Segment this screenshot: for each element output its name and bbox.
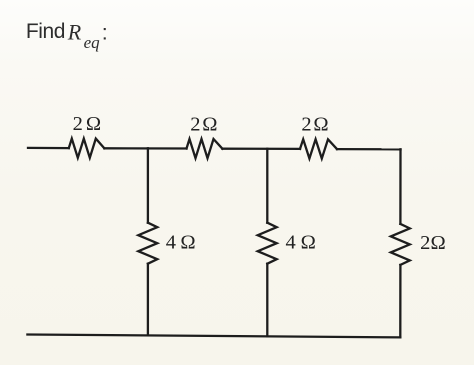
svg-text:Find: Find bbox=[26, 20, 65, 43]
resistor R2 2ohm (top middle) bbox=[187, 139, 223, 158]
svg-text:2: 2 bbox=[73, 113, 83, 135]
svg-text:Ω: Ω bbox=[431, 232, 446, 254]
svg-text:Ω: Ω bbox=[301, 231, 316, 253]
wire: node A vertical lower stub bbox=[147, 264, 149, 336]
wire: top right to corner bbox=[337, 148, 401, 150]
wire: node B vertical lower stub bbox=[266, 264, 268, 337]
resistor R4 4ohm (vertical left) bbox=[138, 223, 157, 264]
svg-text:4: 4 bbox=[286, 231, 296, 253]
svg-text:Ω: Ω bbox=[180, 231, 195, 253]
wire: top between R1 and node A bbox=[104, 147, 186, 149]
svg-text:R: R bbox=[67, 19, 82, 44]
svg-text:Ω: Ω bbox=[202, 113, 217, 135]
wire: top between node A and R3 bbox=[222, 148, 300, 150]
wire: top-left lead bbox=[28, 147, 69, 150]
resistor R3 2ohm (top right) bbox=[300, 139, 337, 158]
svg-text:2: 2 bbox=[420, 232, 430, 254]
label: title Find Req : bbox=[26, 19, 108, 51]
svg-text:eq: eq bbox=[84, 33, 101, 52]
resistor R6 2ohm (vertical right) bbox=[391, 224, 410, 265]
resistor R1 2ohm (top left) bbox=[69, 139, 105, 158]
svg-text::: : bbox=[102, 21, 108, 45]
wire: node A vertical upper stub bbox=[147, 148, 149, 222]
wire: right branch lower stub bbox=[399, 265, 401, 338]
svg-text:2: 2 bbox=[301, 114, 311, 136]
wire: right branch upper stub bbox=[399, 149, 401, 224]
svg-text:Ω: Ω bbox=[86, 113, 101, 135]
svg-text:4: 4 bbox=[166, 231, 176, 253]
svg-text:Ω: Ω bbox=[313, 114, 328, 136]
wire: bottom return bbox=[27, 335, 400, 338]
resistor R5 4ohm (vertical middle) bbox=[258, 223, 277, 264]
svg-text:2: 2 bbox=[190, 113, 200, 135]
wire: node B vertical upper stub bbox=[266, 149, 268, 223]
